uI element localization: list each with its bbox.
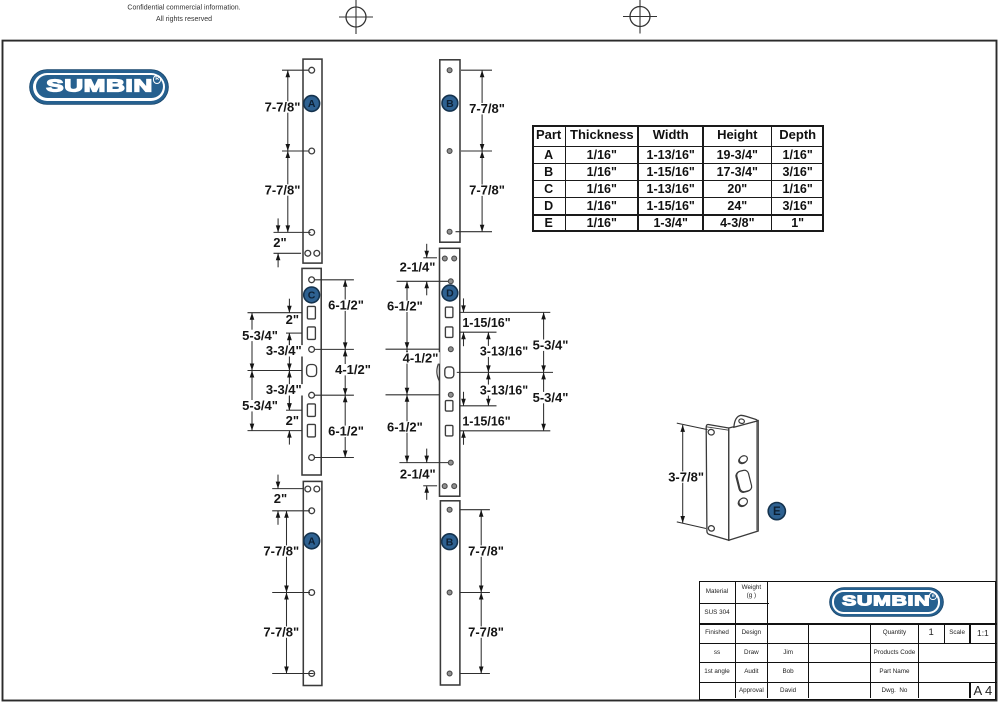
svg-text:7-7/8": 7-7/8"	[469, 101, 505, 116]
svg-text:7-7/8": 7-7/8"	[469, 183, 505, 198]
svg-text:3-3/4": 3-3/4"	[266, 343, 302, 358]
svg-text:3-3/4": 3-3/4"	[266, 382, 302, 397]
svg-text:D: D	[446, 288, 454, 300]
svg-text:2": 2"	[274, 491, 287, 506]
svg-text:2": 2"	[286, 312, 299, 327]
svg-text:5-3/4": 5-3/4"	[533, 338, 569, 353]
svg-text:4-1/2": 4-1/2"	[403, 350, 439, 365]
svg-text:7-7/8": 7-7/8"	[265, 99, 301, 114]
svg-text:5-3/4": 5-3/4"	[242, 398, 278, 413]
svg-text:3-13/16": 3-13/16"	[480, 383, 528, 397]
svg-text:A: A	[308, 98, 316, 110]
svg-text:B: B	[446, 98, 454, 110]
svg-text:7-7/8": 7-7/8"	[263, 544, 299, 559]
svg-text:E: E	[773, 506, 781, 518]
svg-text:2": 2"	[273, 235, 286, 250]
svg-text:7-7/8": 7-7/8"	[265, 182, 301, 197]
svg-text:7-7/8": 7-7/8"	[263, 625, 299, 640]
svg-text:3-7/8": 3-7/8"	[668, 470, 704, 485]
svg-text:1-15/16": 1-15/16"	[462, 414, 510, 428]
svg-text:6-1/2": 6-1/2"	[328, 424, 364, 439]
svg-text:2-1/4": 2-1/4"	[400, 467, 436, 482]
svg-text:3-13/16": 3-13/16"	[480, 345, 528, 359]
svg-text:2": 2"	[286, 413, 299, 428]
svg-text:2-1/4": 2-1/4"	[400, 260, 436, 275]
svg-text:A: A	[308, 536, 316, 548]
svg-text:C: C	[308, 290, 316, 302]
svg-text:Confidential commercial inform: Confidential commercial information.	[127, 5, 240, 12]
svg-text:7-7/8": 7-7/8"	[468, 544, 504, 559]
svg-text:All rights reserved: All rights reserved	[156, 16, 212, 23]
svg-text:B: B	[446, 536, 454, 548]
svg-text:6-1/2": 6-1/2"	[328, 298, 364, 313]
svg-text:7-7/8": 7-7/8"	[468, 625, 504, 640]
svg-text:4-1/2": 4-1/2"	[335, 362, 371, 377]
svg-text:6-1/2": 6-1/2"	[387, 299, 423, 314]
svg-text:5-3/4": 5-3/4"	[242, 328, 278, 343]
svg-text:5-3/4": 5-3/4"	[533, 390, 569, 405]
svg-text:6-1/2": 6-1/2"	[387, 419, 423, 434]
svg-text:1-15/16": 1-15/16"	[462, 316, 510, 330]
